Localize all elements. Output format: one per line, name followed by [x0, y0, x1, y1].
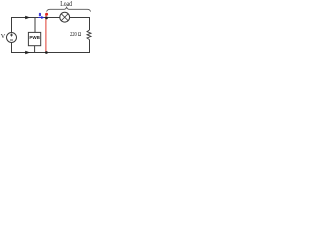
wire PWB bottom lead — [34, 46, 36, 53]
red probe dot — [45, 13, 48, 16]
blue label i — [39, 13, 41, 16]
resistor R zigzag — [87, 30, 91, 40]
arrowhead on top rail — [25, 16, 30, 20]
overbrace for Load — [47, 7, 91, 11]
plus sign in source — [10, 34, 13, 37]
svg-text:PWB: PWB — [29, 35, 40, 40]
lamp cross — [61, 14, 68, 21]
wire top rail — [12, 18, 90, 34]
arrowhead on bottom rail — [25, 51, 30, 55]
voltage source circle — [7, 33, 17, 43]
minus sign in source — [10, 39, 13, 41]
svg-text:V: V — [1, 33, 6, 40]
lamp circle — [60, 12, 70, 22]
junction dot top — [45, 17, 48, 20]
wire bottom rail — [12, 40, 90, 53]
svg-text:220 Ω: 220 Ω — [70, 31, 81, 38]
svg-text:Load: Load — [60, 0, 72, 8]
junction dot bottom — [45, 51, 48, 54]
blue current arrow — [38, 17, 42, 19]
wire PWB top lead — [34, 18, 36, 33]
red probe wire — [45, 14, 47, 52]
PWB box — [28, 32, 40, 45]
